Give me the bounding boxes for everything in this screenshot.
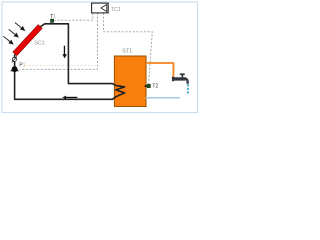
sun ray arrow 1 bbox=[15, 23, 25, 31]
svg-text:ST1: ST1 bbox=[122, 49, 132, 55]
sun ray arrow 3 bbox=[3, 36, 13, 44]
wire: TC1 to T1 dashed control line bbox=[54, 13, 93, 20]
wire: cold water pipe (light blue) bbox=[146, 97, 181, 99]
node: flow arrow left on bottom return pipe bbox=[62, 96, 77, 100]
svg-text:T2: T2 bbox=[152, 84, 158, 90]
svg-text:P1: P1 bbox=[19, 63, 25, 69]
faucet / tap bbox=[172, 73, 189, 83]
wire: solar loop pipes (collector top -> down -> tank coil -> bottom return -> pump riser) bbox=[15, 24, 125, 100]
wire: TC1 to pump P1 dashed control line bbox=[19, 13, 97, 69]
sensor T2 with stub to tank bbox=[145, 85, 148, 87]
pump P1 bbox=[10, 65, 18, 72]
collector SC1 (red absorber panel) bbox=[13, 25, 42, 56]
node: flow arrow down on vertical pipe bbox=[62, 46, 67, 59]
frame border bbox=[2, 2, 198, 113]
sun ray arrow 2 bbox=[9, 29, 19, 37]
water stream from tap bbox=[187, 84, 189, 95]
wire: faint tan dashed line near P1 bbox=[25, 64, 96, 66]
check valve above pump bbox=[12, 56, 17, 62]
svg-text:TC1: TC1 bbox=[111, 7, 121, 13]
tank ST1 (orange storage tank) bbox=[114, 56, 146, 107]
svg-text:SC1: SC1 bbox=[34, 41, 45, 47]
sensor T1 bbox=[50, 19, 53, 23]
controller TC1 box bbox=[92, 3, 109, 13]
svg-text:T1: T1 bbox=[50, 14, 56, 20]
wire: hot water pipe (orange) from tank to tap bbox=[146, 63, 173, 77]
wire: TC1 to sensor T2 dashed control line bbox=[104, 13, 153, 84]
